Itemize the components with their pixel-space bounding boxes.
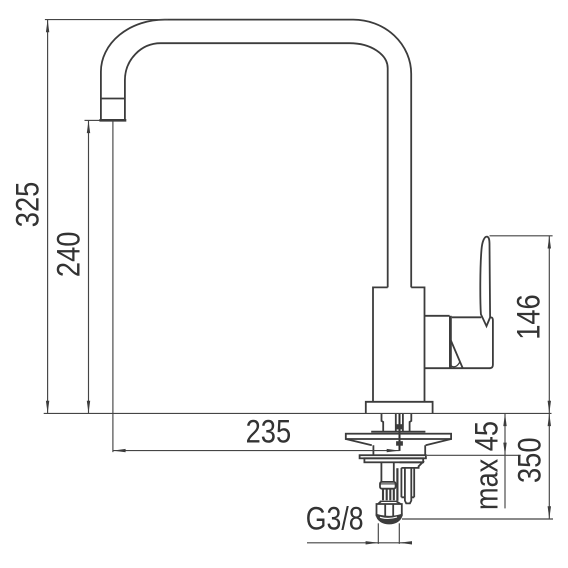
- arrow 146 bottom: [548, 401, 551, 414]
- top extension line: [45, 19, 168, 21]
- faucet body: [373, 287, 450, 401]
- nut crescent highlight: [380, 517, 397, 518]
- svg-text:325: 325: [10, 182, 46, 228]
- handle socket: [452, 317, 493, 368]
- nut bottom ellipse: [377, 515, 402, 524]
- socket bottom line: [425, 367, 491, 369]
- stud block lower: [397, 442, 403, 446]
- braid flare to nut: [378, 501, 401, 504]
- arrow G38 right: [399, 541, 412, 544]
- arrow 235 right: [387, 449, 400, 452]
- plate skirt left: [346, 439, 374, 455]
- G3/8 nut: [377, 504, 402, 516]
- G3/8 dim line: [307, 542, 404, 544]
- svg-text:240: 240: [51, 232, 87, 278]
- svg-text:G3/8: G3/8: [306, 501, 364, 537]
- arrow max45 bottom: [503, 443, 506, 456]
- arrow 146 top: [548, 236, 551, 249]
- mounting shank below counter: [382, 413, 412, 431]
- handle top extension: [490, 235, 553, 237]
- dim line 240: [88, 120, 90, 413]
- arrow max45 top: [503, 413, 506, 426]
- left hose tube: [381, 462, 393, 482]
- right hose top block: [400, 462, 423, 468]
- threaded stud: [399, 413, 401, 451]
- arrow 350 bottom: [548, 506, 551, 519]
- hose braid section: [383, 489, 394, 501]
- stud block upper: [397, 425, 403, 429]
- socket fillet arc: [450, 362, 460, 367]
- aerator joint line: [101, 98, 125, 100]
- braid flare to nut: [380, 500, 398, 502]
- arrow 235 left: [113, 449, 126, 452]
- dim line max45: [504, 413, 506, 508]
- hose end extension: [402, 518, 553, 520]
- handle lever blade: [480, 237, 490, 327]
- arrow 350 top: [548, 413, 551, 426]
- spout outlet extension line: [85, 119, 100, 121]
- aerator bottom edge: [99, 119, 126, 122]
- svg-text:146: 146: [511, 294, 547, 340]
- dim line 325: [47, 20, 49, 414]
- arrow 325 top: [46, 20, 49, 33]
- nut facets: [385, 504, 393, 516]
- arrow G38 left: [366, 541, 379, 544]
- spout outer outline: [101, 20, 411, 288]
- svg-text:max 45: max 45: [469, 421, 505, 510]
- plate skirt right: [425, 439, 451, 455]
- right dim line 146/350: [548, 236, 550, 519]
- arrow 240 bottom: [87, 401, 90, 414]
- hose crimp collar: [380, 482, 396, 489]
- svg-text:350: 350: [512, 437, 548, 483]
- svg-text:235: 235: [246, 414, 292, 450]
- G3/8 extension left: [377, 523, 379, 544]
- shank inner lines: [396, 413, 403, 431]
- right hose sleeve: [401, 468, 414, 504]
- dim line 235: [113, 450, 400, 452]
- outlet axis extension: [112, 120, 114, 452]
- arrow 240 top: [87, 120, 90, 133]
- cartridge thick edge: [449, 316, 452, 368]
- shank boss line: [371, 431, 425, 433]
- G3/8 extension right: [398, 523, 400, 544]
- hose gap shadow: [396, 468, 398, 501]
- collar inner line: [380, 483, 395, 485]
- clamp plate lower: [364, 458, 423, 462]
- arrow 325 bottom: [46, 401, 49, 414]
- socket chamfer diagonal: [451, 341, 463, 368]
- spout inner outline: [125, 43, 388, 287]
- counter bottom extension: [427, 454, 521, 456]
- clamp plate upper: [360, 455, 426, 458]
- countertop reference line: [44, 412, 552, 414]
- body base flange: [366, 402, 433, 414]
- horseshoe plate: [346, 434, 451, 439]
